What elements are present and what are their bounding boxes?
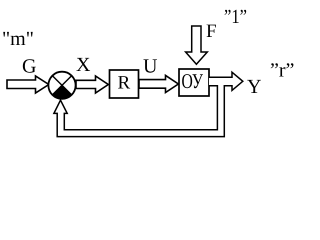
svg-text:"m": "m" bbox=[2, 28, 34, 50]
svg-text:Y: Y bbox=[247, 76, 261, 98]
svg-text:ОУ: ОУ bbox=[181, 69, 203, 93]
svg-text:U: U bbox=[143, 55, 158, 77]
svg-text:F: F bbox=[206, 21, 217, 42]
svg-text:X: X bbox=[76, 54, 91, 76]
svg-text:R: R bbox=[117, 73, 130, 94]
svg-text:”r”: ”r” bbox=[270, 60, 294, 82]
svg-text:”1”: ”1” bbox=[224, 6, 247, 28]
svg-text:G: G bbox=[22, 55, 36, 77]
